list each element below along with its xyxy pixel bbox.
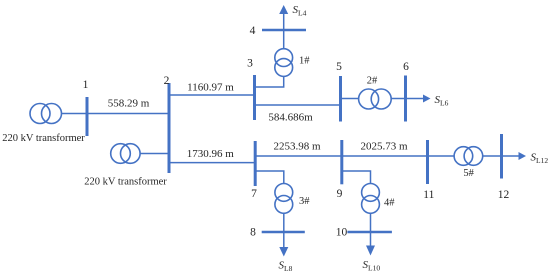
svg-text:10: 10 — [336, 227, 348, 239]
wire: bus 6 to load arrow — [406, 98, 424, 100]
wire: bus 2 to bus 7 (1730.96 m) — [169, 162, 255, 164]
svg-text:4#: 4# — [384, 198, 395, 209]
transformer 4# — [362, 184, 380, 214]
load arrow S_L8 — [279, 247, 288, 257]
svg-text:7: 7 — [251, 188, 257, 200]
svg-text:558.29 m: 558.29 m — [108, 98, 150, 110]
bus 6 — [404, 76, 407, 122]
svg-text:584.686m: 584.686m — [268, 112, 313, 124]
svg-text:8: 8 — [250, 227, 256, 239]
bus 12 — [500, 134, 503, 179]
wire: bus 11 to transformer 5# — [428, 155, 455, 157]
svg-text:11: 11 — [423, 189, 434, 201]
svg-text:2025.73 m: 2025.73 m — [360, 141, 408, 153]
svg-text:2253.98 m: 2253.98 m — [273, 141, 321, 153]
bus 7 — [254, 141, 257, 186]
svg-text:220 kV transformer: 220 kV transformer — [84, 177, 167, 188]
transformer 5# — [454, 147, 483, 166]
svg-text:SL6: SL6 — [435, 94, 449, 108]
svg-text:6: 6 — [403, 61, 409, 73]
svg-text:4: 4 — [250, 25, 256, 37]
svg-text:1160.97 m: 1160.97 m — [187, 82, 234, 94]
bus 9 — [340, 140, 343, 184]
svg-text:12: 12 — [498, 189, 510, 201]
wire: bus 7 to bus 9 (2253.98 m) — [255, 155, 342, 157]
wire: bus 2 to bus 3 (1160.97 m) — [169, 94, 255, 96]
220 kV transformer (source 2) — [111, 144, 140, 164]
wire: transformer 5# to bus 12 — [483, 155, 502, 157]
transformer 2# — [359, 89, 392, 109]
wire: bus 5 to transformer 2# — [341, 98, 359, 100]
svg-text:3: 3 — [247, 58, 253, 70]
transformer 3# — [275, 184, 293, 214]
svg-text:1#: 1# — [299, 56, 310, 67]
bus 1 — [86, 97, 89, 136]
load arrow S_L12 — [519, 152, 527, 160]
transformer 1# — [275, 49, 293, 77]
svg-text:5#: 5# — [463, 168, 474, 179]
bus 4 — [262, 29, 306, 32]
wire: transformer 3# to load arrow (through bus 8) — [283, 213, 285, 247]
svg-text:2#: 2# — [367, 76, 378, 87]
bus 2 — [168, 83, 171, 173]
svg-text:220 kV transformer: 220 kV transformer — [2, 133, 85, 144]
wire: source 2 to bus 2 — [140, 153, 169, 155]
wire: transformer 1# to load arrow (through bus 4) — [283, 13, 285, 49]
wire: bus 3 to transformer 1# — [255, 77, 284, 87]
bus 5 — [339, 76, 342, 122]
bus 10 — [347, 231, 392, 234]
svg-text:3#: 3# — [299, 196, 310, 207]
wire: bus 7 to transformer 3# — [255, 171, 284, 184]
bus 11 — [426, 140, 429, 184]
wire: source 1 to bus 2 (558.29 m line) — [62, 113, 170, 115]
svg-text:1730.96 m: 1730.96 m — [187, 148, 235, 160]
wire: bus 12 to load arrow — [502, 155, 519, 157]
bus 3 — [253, 75, 256, 120]
svg-text:1: 1 — [83, 79, 89, 91]
load arrow S_L4 — [279, 5, 288, 14]
wire: bus 3 to bus 5 (584.686m) — [255, 104, 341, 106]
220 kV transformer (source 1) — [30, 104, 62, 124]
svg-text:SL4: SL4 — [293, 4, 307, 18]
bus 8 — [262, 231, 305, 234]
wire: bus 9 to transformer 4# — [342, 171, 371, 184]
svg-text:9: 9 — [337, 188, 343, 200]
svg-text:SL8: SL8 — [279, 260, 293, 274]
svg-text:5: 5 — [336, 61, 342, 73]
wire: transformer 4# to load arrow (through bus 10) — [370, 213, 372, 246]
load arrow S_L6 — [423, 95, 431, 103]
svg-text:2: 2 — [164, 75, 170, 87]
wire: transformer 2# to bus 6 — [391, 98, 405, 100]
load arrow S_L10 — [366, 246, 375, 256]
svg-text:SL10: SL10 — [363, 259, 381, 273]
svg-text:SL12: SL12 — [531, 152, 549, 166]
wire: bus 9 to bus 11 (2025.73 m) — [342, 155, 428, 157]
